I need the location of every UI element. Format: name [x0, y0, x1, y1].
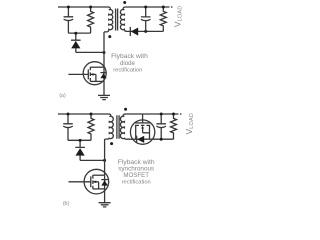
capacitor output Co (a) [145, 7, 147, 31]
resistor clamp Ra [88, 7, 94, 33]
node phase dot primary (a) [108, 35, 111, 38]
mosfet Q3 left jog [135, 125, 137, 139]
node output bottom (a) [144, 30, 147, 33]
mosfet Q2 circle [84, 169, 109, 194]
ground (a) [98, 95, 110, 99]
wire clamp return (a) [76, 51, 104, 53]
wire clamp bottom (a) [68, 32, 90, 34]
mosfet Q1 body diode [100, 72, 106, 74]
resistor load RL (a) [160, 7, 166, 31]
mosfet Q3 gate bar [135, 122, 150, 124]
resistor load RL (b) [171, 114, 177, 139]
wire top rail right (a) [123, 7, 170, 9]
svg-text:(a): (a) [59, 93, 66, 99]
node phase dot secondary (b) [124, 108, 127, 111]
ground (b) [99, 203, 111, 207]
diode clamp Db [75, 140, 85, 160]
capacitor clamp Ca plates [64, 17, 74, 21]
transformer T2 core [117, 115, 119, 139]
node rail resistor (a) [89, 6, 92, 9]
wire top rail right (b) [123, 114, 178, 116]
terminal tick Vload (b) [180, 113, 182, 115]
mosfet Q2 source jog [93, 188, 105, 190]
svg-text:diode: diode [120, 60, 136, 67]
node drain junction (b) [103, 159, 106, 162]
capacitor output Co (b) [160, 114, 162, 139]
resistor clamp Rb [88, 114, 94, 140]
mosfet Q2 gate lead [69, 181, 91, 183]
capacitor clamp Ca leads [67, 7, 69, 33]
mosfet Q1 body arrow [90, 74, 96, 81]
node phase dot primary (b) [110, 142, 113, 145]
diode clamp Da [71, 33, 81, 52]
mosfet Q1 drain jog [90, 66, 104, 68]
node phase dot secondary (a) [123, 1, 126, 4]
wire clamp bottom (b) [68, 139, 91, 141]
transformer T2 primary winding [105, 116, 114, 139]
mosfet Q2 body arrow [93, 182, 99, 189]
wire top rail left (a) [58, 7, 110, 9]
terminal tick Vload (a) [171, 6, 173, 8]
svg-text:rectification: rectification [113, 67, 142, 73]
mosfet Q3 gate stub [142, 114, 144, 123]
svg-text:rectification: rectification [122, 179, 151, 185]
diode output Do (a) [129, 27, 131, 36]
transformer T1 core [116, 9, 118, 31]
mosfet Q2 drain-source wire [104, 139, 106, 203]
mosfet Q3 right jog [149, 125, 151, 139]
wire clamp return (b) [80, 159, 105, 161]
mosfet Q1 gate lead [68, 73, 88, 75]
mosfet Q3 body arrow [143, 128, 150, 133]
node rail out-res (b) [172, 113, 175, 116]
svg-text:(b): (b) [63, 201, 70, 207]
transformer T2 secondary winding [120, 116, 130, 139]
wire secondary bottom to output (a) [130, 30, 163, 32]
mosfet Q1 channel [89, 67, 91, 82]
mosfet Q1 circle [83, 62, 106, 85]
mosfet Q3 body diode [136, 136, 138, 143]
mosfet Q3 channel [135, 124, 150, 126]
mosfet Q2 gate bar [90, 176, 92, 187]
node output bottom (b) [160, 138, 163, 141]
mosfet Q1 drain-source wire [103, 32, 105, 96]
transformer T1 secondary winding [120, 10, 130, 32]
node rail resistor (b) [90, 113, 93, 116]
mosfet Q2 channel [92, 175, 94, 189]
svg-text:VLOAD: VLOAD [173, 6, 184, 28]
capacitor clamp Cb leads [67, 114, 69, 140]
mosfet Q2 body diode [101, 179, 108, 181]
mosfet Q1 gate bar [87, 69, 89, 79]
caption (a) text [59, 6, 195, 207]
node drain junction (a) [103, 51, 106, 54]
node rail out-cap (a) [144, 6, 147, 9]
node rail cap (a) [67, 6, 70, 9]
node rail cap (b) [67, 113, 70, 116]
svg-text:VLOAD: VLOAD [184, 113, 195, 135]
wire output bottom rail (b) [130, 138, 173, 140]
mosfet Q2 drain jog [93, 174, 105, 176]
capacitor clamp Cb plates [63, 124, 73, 128]
mosfet Q3 sync circle [130, 120, 154, 144]
node rail out-cap (b) [160, 113, 163, 116]
svg-text:MOSFET: MOSFET [123, 172, 149, 179]
transformer T1 primary winding [104, 10, 113, 32]
wire top rail left (b) [58, 114, 111, 116]
node rail out-res (a) [162, 6, 165, 9]
mosfet Q1 source jog [90, 80, 104, 82]
node clamp bottom (b) [79, 139, 82, 142]
node clamp bottom (a) [74, 32, 77, 35]
